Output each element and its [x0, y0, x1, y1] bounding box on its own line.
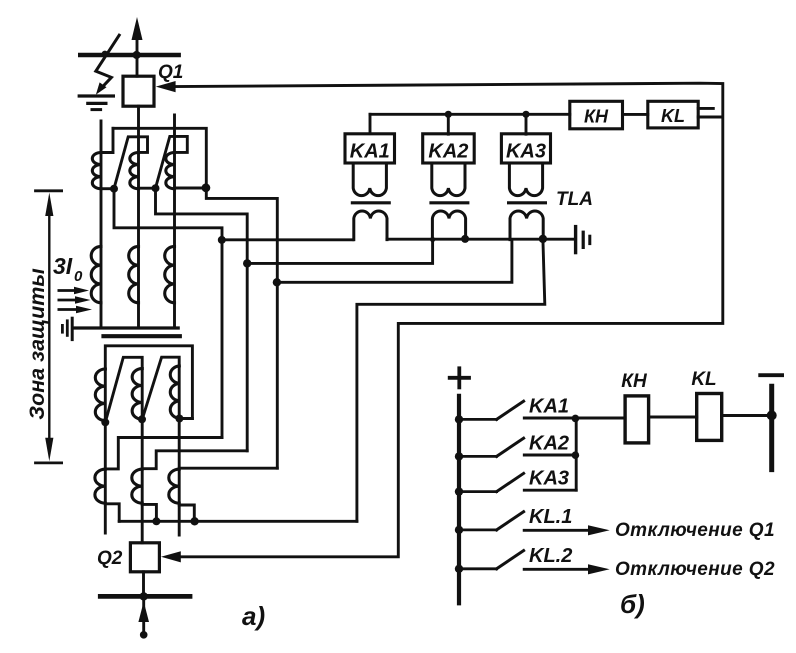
junction bus / contact KA3 — [455, 487, 463, 495]
svg-text:KL.1: KL.1 — [529, 506, 572, 528]
wire contact KA3 output — [524, 489, 576, 492]
CT TA3 secondary winding (upper right) — [166, 153, 175, 189]
arrows 3I0 (three small arrows to the right) — [59, 287, 92, 314]
svg-text:KA2: KA2 — [428, 141, 468, 163]
wire TA4 bottom to return rail — [105, 504, 119, 522]
junction TA3 bottom / rail drop — [175, 183, 211, 192]
svg-text:Q2: Q2 — [97, 548, 123, 569]
relay KL box (output) — [648, 101, 698, 128]
label a) — [242, 601, 265, 631]
junction TA2 bottom — [139, 184, 160, 192]
wire contact KA1 output — [524, 417, 575, 420]
label KA3 (contact) — [529, 468, 569, 490]
CT TA6 secondary winding (lower right) — [169, 469, 179, 503]
wire Q2 to lower busbar — [142, 572, 145, 597]
delta winding column 2 — [132, 369, 142, 420]
node A: source arrow up at top of feeder — [132, 17, 143, 53]
breaker Q2 — [130, 543, 159, 572]
junction KA1 output — [572, 415, 580, 423]
wire CT circuit phase C (rail drop to row3) — [206, 188, 277, 283]
label KL.2 (contact) — [529, 545, 572, 567]
label KA3 — [506, 141, 546, 163]
wire contact KA2 output — [524, 454, 575, 457]
load arrow up into lower busbar — [138, 599, 149, 639]
wire KH to KL — [623, 113, 648, 116]
svg-text:KA1: KA1 — [529, 396, 569, 418]
delta winding column 1 — [95, 369, 105, 422]
label Q1 — [158, 62, 183, 83]
wire KL to trip vertical — [698, 108, 721, 117]
wire TA6 bottom to return rail — [179, 505, 194, 521]
label KL (box a) — [661, 106, 685, 126]
wire paralleling vertical — [575, 418, 578, 490]
relay KA2 box — [423, 134, 475, 163]
lightning fault arrow (short-circuit indication) — [96, 35, 119, 94]
wire common rail right segment (to ground) — [387, 238, 574, 241]
DC negative bus bar — [769, 386, 774, 469]
junction feeder/upper busbar — [133, 51, 141, 59]
svg-text:KA3: KA3 — [506, 141, 546, 163]
CT TA1 secondary winding (upper left) — [92, 153, 101, 189]
svg-text:KL: KL — [691, 369, 716, 390]
transformer TLA2 core separator — [431, 201, 468, 204]
wire lower CT return to rail junction — [357, 239, 545, 521]
rail to measuring relays — [370, 113, 570, 116]
phase B line (middle, upper) — [137, 153, 140, 329]
junction Q2/lower busbar — [140, 592, 148, 600]
DC positive bus — [457, 396, 461, 603]
phase B line (lower, to Q2) — [141, 419, 144, 543]
arrow trip Q2 (from KL.2) — [524, 564, 610, 574]
svg-text:3I: 3I — [53, 253, 73, 279]
wire KH coil to KL coil — [649, 416, 697, 419]
junction TLA3 right leg on rail — [539, 235, 547, 243]
phase C line (lower) — [178, 419, 181, 536]
svg-text:0: 0 — [74, 268, 83, 285]
transformer TLA1 primary winding (m-shape) — [354, 211, 387, 240]
transformer TLA3 core separator — [509, 201, 546, 204]
junction KA2 output — [572, 451, 580, 459]
junction negative bus — [767, 410, 777, 420]
transformer T1 wye winding phase B — [129, 246, 139, 302]
transformer TLA3 primary winding (m-shape) — [510, 211, 543, 240]
svg-text:КН: КН — [621, 371, 648, 392]
wire TA5 bottom to return rail — [142, 504, 156, 521]
label b) — [620, 589, 645, 619]
contact KA3 (blade) — [459, 473, 524, 491]
junction delta col3 bottom / return — [175, 415, 192, 423]
svg-text:а): а) — [242, 601, 265, 631]
label KA1 — [350, 141, 390, 163]
label KH (coil b) — [621, 371, 648, 392]
delta slanted link 2-3 — [142, 357, 179, 419]
svg-text:KA1: KA1 — [350, 141, 390, 163]
junction TLA2 right leg on rail — [461, 235, 469, 243]
transformer TLA1 core separator — [352, 201, 389, 204]
wire rail to KA2 — [447, 114, 450, 134]
wire CT circuit phase B down to lower CT group — [142, 263, 247, 468]
junction bus / contact KA2 — [455, 452, 463, 460]
wire CT circuit phase A (dot to TLA row) — [114, 189, 222, 240]
junction TA5 return — [152, 517, 160, 525]
coil KL (part b) — [697, 394, 722, 441]
wire CT circuit phase B (dot to row2) — [156, 188, 248, 263]
label Отключение Q1 — [615, 520, 775, 541]
wire CT TA1 top to rail — [101, 128, 113, 152]
wire busbar to Q1 — [136, 57, 139, 76]
junction bus / contact KA1 — [455, 415, 463, 423]
svg-text:Q1: Q1 — [158, 62, 183, 83]
svg-text:KA3: KA3 — [529, 468, 569, 490]
delta winding column 3 — [170, 366, 179, 419]
junction delta col1 bottom — [101, 418, 109, 426]
label Q2 — [97, 548, 123, 569]
label 3I0 (zero-sequence current) — [53, 253, 83, 285]
arrow trip Q1 (from KL.1) — [524, 525, 610, 535]
relay KA3 box — [501, 134, 550, 163]
transformer TLA1 secondary winding (w-shape under KA1) — [353, 163, 386, 196]
wire Q1 to CT section (phase B top) — [137, 106, 140, 152]
junction phase B branch — [243, 259, 251, 267]
ground G3 (transformer neutral) — [62, 318, 72, 339]
transformer TLA2 primary winding (m-shape) — [432, 211, 465, 240]
junction bus / contact KL.1 — [455, 526, 463, 534]
transformer T1 wye winding phase C — [165, 246, 175, 302]
label Зона защиты (protection zone, rotated) — [25, 268, 49, 420]
coil KH (part b) — [625, 396, 649, 443]
junction phase C branch — [273, 278, 281, 286]
transformer T1 wye winding phase A — [91, 246, 101, 302]
contact KL.2 (blade) — [459, 551, 524, 569]
junction start of common rail — [218, 236, 226, 244]
label plus terminal — [450, 368, 469, 387]
junction TA6 return — [190, 517, 198, 525]
wire rail to KA1 — [369, 114, 372, 133]
return rail lower CT group — [119, 520, 357, 523]
label KL (coil b) — [691, 369, 716, 390]
svg-text:Зона защиты: Зона защиты — [25, 268, 49, 420]
ground G1 (under lightning arrow) — [79, 96, 113, 110]
busbar lower — [100, 594, 190, 599]
phase A line (left, upper) — [100, 121, 103, 328]
wire KA outputs to KH coil — [575, 417, 625, 420]
junction bus / contact KL.2 — [455, 565, 463, 573]
transformer TLA3 secondary winding (w-shape under KA3) — [509, 163, 542, 196]
CT TA5 secondary winding (lower middle) — [132, 469, 142, 503]
dimension line protection zone (double arrow) — [36, 191, 62, 463]
rail over CT group — [113, 128, 206, 187]
label TLA — [556, 189, 593, 210]
wire trip circuit to Q1 (long top wire, right vertical, arrow into Q1) — [156, 81, 723, 557]
svg-text:KL: KL — [661, 106, 685, 126]
breaker Q1 — [123, 76, 154, 106]
busbar upper (system bus) — [80, 53, 178, 58]
wire wye neutral rail — [73, 326, 178, 329]
label KA1 (contact) — [529, 396, 569, 418]
svg-text:б): б) — [620, 589, 645, 619]
junction delta col2 bottom — [138, 415, 146, 423]
delta slanted link 1-2 — [105, 357, 142, 422]
label KL.1 (contact) — [529, 506, 572, 528]
wire common rail left segment — [222, 238, 353, 241]
relay KH box (output) — [570, 101, 623, 129]
svg-text:КН: КН — [584, 107, 609, 127]
wire KL coil to negative bus — [722, 414, 772, 417]
svg-text:KA2: KA2 — [529, 433, 569, 455]
label KA2 (contact) — [529, 433, 569, 455]
delta rail top — [105, 346, 192, 419]
bar between windings (core) — [104, 334, 180, 338]
junction KA3 tap — [522, 111, 529, 118]
wire row3 to TLA3 primary — [277, 240, 512, 282]
svg-text:KL.2: KL.2 — [529, 545, 572, 567]
label KH (box a) — [584, 107, 609, 127]
wire rail to KA3 — [525, 114, 528, 134]
contact KL.1 (blade) — [459, 512, 524, 530]
svg-text:Отключение Q1: Отключение Q1 — [615, 520, 775, 541]
phase A line (lower) — [104, 422, 107, 533]
transformer TLA2 secondary winding (w-shape under KA2) — [432, 163, 465, 196]
junction KA2 tap — [445, 111, 452, 118]
wire slanted link TA2-TA3 (staple 2) — [156, 136, 188, 188]
CT TA2 secondary winding (upper middle) — [130, 153, 139, 189]
CT TA4 secondary winding (lower left) — [95, 469, 105, 503]
wire row2 to TLA2 primary — [247, 240, 432, 263]
junction TA1 bottom — [101, 185, 118, 193]
label minus terminal — [760, 373, 782, 377]
phase C line (right, upper) — [173, 115, 176, 328]
label Отключение Q2 — [615, 559, 775, 580]
relay KA1 box — [345, 134, 395, 163]
trip arrow into Q2 — [161, 551, 181, 562]
ground G2 (right end of common rail) — [576, 227, 590, 253]
contact KA2 (blade) — [459, 438, 524, 456]
wire slanted link TA1-TA2 (staple 1) — [114, 137, 148, 189]
junction TLA2 left leg on rail — [430, 237, 435, 242]
wire CT circuit phase A down to lower CT group — [105, 240, 222, 469]
svg-text:Отключение Q2: Отключение Q2 — [615, 559, 775, 580]
wire CT circuit phase C down to lower CT group — [179, 282, 277, 468]
svg-text:TLA: TLA — [556, 189, 593, 210]
contact KA1 (blade) — [459, 401, 524, 419]
label KA2 — [428, 141, 468, 163]
